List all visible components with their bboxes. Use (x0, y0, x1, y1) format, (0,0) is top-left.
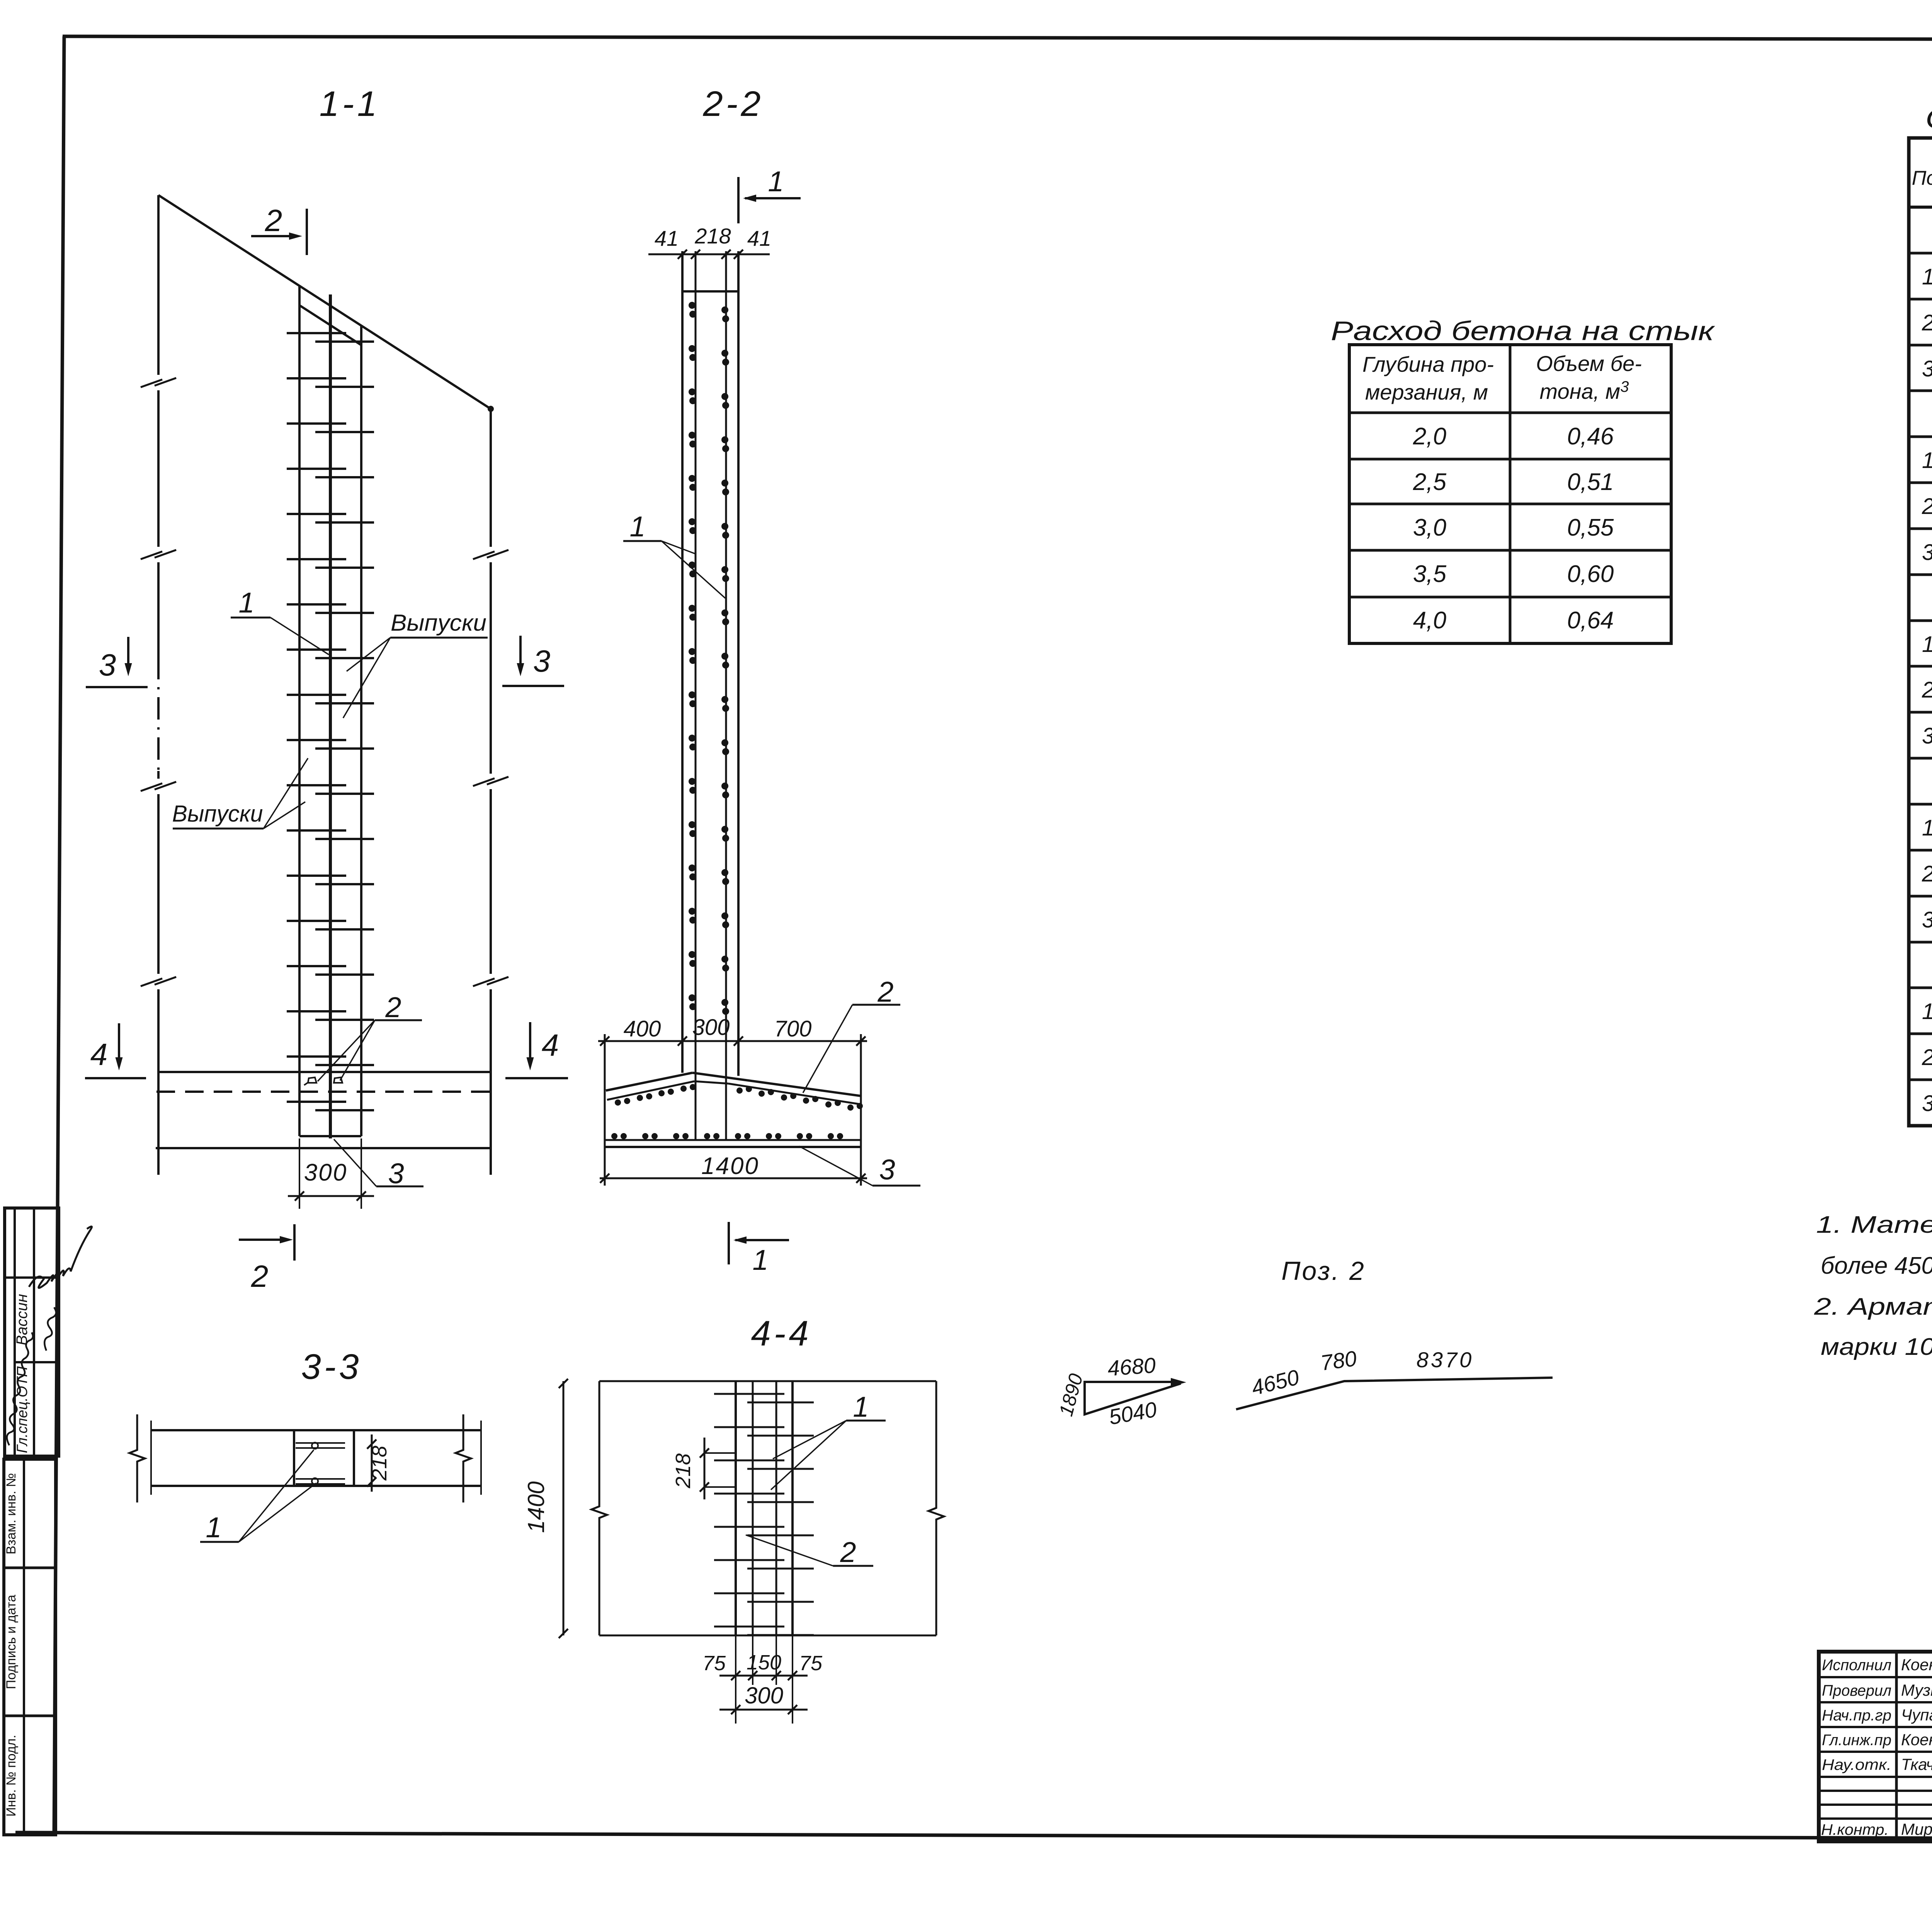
svg-text:Инв. № подл.: Инв. № подл. (4, 1735, 19, 1817)
svg-text:3: 3 (1922, 907, 1932, 932)
svg-text:марки 10 ГТ по ГОСТ 5781-82: марки 10 ГТ по ГОСТ 5781-82. (1821, 1334, 1932, 1360)
svg-text:3-3: 3-3 (301, 1347, 362, 1387)
svg-text:2,5: 2,5 (1413, 469, 1447, 495)
spec table header row (1909, 206, 1932, 209)
svg-text:0,64: 0,64 (1567, 607, 1614, 634)
svg-text:218: 218 (368, 1446, 391, 1481)
svg-text:3: 3 (99, 648, 116, 682)
stamp left grid (1895, 1652, 1898, 1841)
svg-text:Глубина про-: Глубина про- (1362, 352, 1494, 376)
svg-text:Нау.отк.: Нау.отк. (1822, 1756, 1891, 1773)
2-2 joint top line (682, 290, 738, 293)
4-4 right edge line with break (929, 1381, 944, 1635)
3-3 wall bottom edge (151, 1485, 481, 1487)
2-2 footing left edge (604, 1034, 606, 1186)
1-1 inner slope at joint top (299, 305, 361, 345)
svg-text:4-4: 4-4 (751, 1314, 812, 1353)
stamp outer box (1819, 1652, 1932, 1841)
svg-text:3: 3 (1922, 723, 1932, 749)
1-1 joint bar pos.1 (centre) (329, 294, 332, 1138)
svg-text:0,55: 0,55 (1567, 514, 1614, 541)
svg-text:1400: 1400 (523, 1481, 549, 1533)
1-1 ground line left (with breaks) (157, 195, 160, 375)
svg-text:2: 2 (877, 976, 893, 1008)
svg-text:2: 2 (1922, 677, 1932, 703)
3-3 dimension 218 (rotated) (371, 1434, 373, 1492)
2-2 wall outer right edge (737, 251, 740, 1076)
svg-text:2: 2 (1922, 1045, 1932, 1070)
1-1 pos.2 hook left (304, 1077, 316, 1085)
svg-text:Гл.спец.ОТП: Гл.спец.ОТП (14, 1366, 31, 1453)
1-1 right line top dot (488, 406, 494, 412)
svg-text:Н.контр.: Н.контр. (1821, 1821, 1889, 1838)
svg-text:Поз. 2: Поз. 2 (1281, 1256, 1366, 1286)
2-2 footing slope rebar dots (615, 1099, 621, 1106)
svg-text:3: 3 (1922, 356, 1932, 381)
svg-text:Подпись и дата: Подпись и дата (4, 1595, 19, 1690)
svg-text:300: 300 (745, 1683, 783, 1708)
svg-text:1: 1 (1922, 999, 1932, 1024)
1-1 footing dashed line (156, 1091, 491, 1093)
svg-text:2: 2 (385, 991, 401, 1023)
svg-text:3: 3 (388, 1157, 404, 1189)
sheet frame left border (54, 36, 64, 1835)
svg-text:780: 780 (1319, 1346, 1358, 1375)
2-2 footing bottom mat lines (605, 1139, 861, 1141)
4-4 dimension 1400 (rotated) (563, 1381, 565, 1635)
spec table group separator lines (1909, 252, 1932, 255)
2-2 footing mat rebar dots (611, 1133, 617, 1139)
4-4 joint right edge (791, 1381, 794, 1635)
svg-text:1400: 1400 (701, 1153, 759, 1179)
4-4 top edge line (599, 1380, 936, 1382)
svg-text:Ткаченко: Ткаченко (1901, 1755, 1932, 1773)
svg-text:мерзания, м: мерзания, м (1365, 380, 1488, 404)
svg-text:1: 1 (853, 1391, 869, 1423)
3-3 right end tick (480, 1421, 482, 1495)
svg-text:300: 300 (692, 1015, 730, 1040)
1-1 section marker 2 (bottom) (293, 1224, 296, 1261)
svg-text:Коен В.: Коен В. (1901, 1656, 1932, 1674)
sheet frame top border (63, 36, 1932, 40)
svg-text:Объем бе-: Объем бе- (1536, 351, 1642, 376)
3-3 right break line (456, 1414, 471, 1502)
svg-text:2,0: 2,0 (1413, 423, 1446, 450)
4-4 joint bar right (776, 1381, 777, 1635)
4-4 joint left edge (735, 1381, 737, 1635)
svg-text:1-1: 1-1 (320, 84, 380, 124)
svg-text:Спецификация арматуры на ст: Спецификация арматуры на стык (1925, 104, 1932, 134)
1-1 footing top line (158, 1071, 491, 1073)
3-3 upper bar pair (296, 1442, 345, 1444)
pos.2 bar profile polyline (1236, 1378, 1553, 1409)
3-3 left end tick (150, 1421, 152, 1495)
2-2 footing right edge (860, 1034, 862, 1186)
svg-text:1: 1 (768, 165, 784, 197)
1-1 joint left edge (298, 286, 301, 1136)
svg-text:Поз.: Поз. (1912, 167, 1932, 189)
pos.2 slope triangle (1085, 1381, 1181, 1414)
svg-text:1. Материал стыка бетон: 1. Материал стыка бетон В20 с расходом ц… (1816, 1211, 1932, 1238)
svg-text:тона, м3: тона, м3 (1540, 378, 1629, 403)
svg-text:75: 75 (799, 1652, 823, 1675)
svg-text:2: 2 (251, 1259, 269, 1293)
2-2 joint inner left edge (695, 251, 697, 1139)
4-4 dimension 218 (rotated) (704, 1438, 706, 1499)
svg-text:Гл.инж.пр: Гл.инж.пр (1822, 1732, 1891, 1749)
svg-text:2: 2 (265, 203, 282, 238)
svg-text:Выпуски: Выпуски (172, 801, 263, 827)
rotated cursive text in col1 of box A (7, 1332, 33, 1445)
svg-text:2: 2 (1922, 494, 1932, 519)
svg-text:2: 2 (840, 1536, 856, 1568)
svg-text:75: 75 (702, 1652, 726, 1675)
svg-text:300: 300 (304, 1159, 347, 1186)
svg-text:41: 41 (747, 226, 771, 250)
svg-text:Исполнил: Исполнил (1822, 1657, 1891, 1674)
svg-text:218: 218 (694, 224, 731, 248)
svg-text:700: 700 (774, 1016, 812, 1041)
svg-text:1: 1 (1922, 815, 1932, 841)
svg-text:2: 2 (1922, 861, 1932, 886)
1-1 joint bottom line (299, 1135, 361, 1137)
svg-text:1: 1 (1922, 632, 1932, 657)
svg-text:Миронова: Миронова (1901, 1820, 1932, 1838)
svg-text:Вассин: Вассин (14, 1294, 31, 1345)
svg-text:1: 1 (629, 510, 645, 543)
svg-text:2. Арматура периодического: 2. Арматура периодического профиля из ст… (1814, 1293, 1932, 1325)
svg-text:Проверил: Проверил (1822, 1682, 1891, 1699)
signature flourish above box A (29, 1227, 92, 1288)
svg-text:1: 1 (752, 1244, 768, 1276)
svg-text:Расход бетона на стык: Расход бетона на стык (1331, 316, 1716, 346)
svg-text:4,0: 4,0 (1413, 607, 1446, 634)
signature squiggle in row2 of box A (44, 1307, 56, 1351)
svg-text:Нач.пр.гр: Нач.пр.гр (1822, 1707, 1891, 1724)
svg-text:3,0: 3,0 (1413, 514, 1446, 541)
svg-text:3: 3 (879, 1154, 895, 1186)
left margin signature box A (5, 1208, 59, 1456)
svg-text:3: 3 (1922, 540, 1932, 565)
svg-text:1: 1 (238, 587, 254, 619)
4-4 rebar rungs and stubs (714, 1393, 784, 1395)
svg-text:5040: 5040 (1107, 1397, 1159, 1429)
2-2 rebar dots along joint (689, 302, 696, 309)
3-3 left break line (129, 1414, 145, 1502)
svg-text:3: 3 (1922, 1091, 1932, 1116)
svg-text:Коен Б.: Коен Б. (1901, 1730, 1932, 1749)
1-1 footing bottom line (156, 1147, 491, 1149)
svg-text:0,46: 0,46 (1567, 423, 1614, 450)
svg-text:218: 218 (672, 1453, 695, 1489)
svg-text:0,51: 0,51 (1567, 469, 1614, 495)
svg-text:Музюкин: Музюкин (1901, 1681, 1932, 1699)
3-3 wall top edge (151, 1429, 481, 1431)
4-4 joint bar left (752, 1381, 754, 1635)
3-3 joint left edge (293, 1430, 295, 1486)
1-1 joint right edge (360, 326, 362, 1136)
svg-text:1: 1 (206, 1511, 221, 1543)
2-2 wall outer left edge (681, 251, 684, 1073)
3-3 lower bar pair (296, 1478, 345, 1480)
svg-text:более 450 кг/м3, морозостойк: более 450 кг/м3, морозостойкостью не мен… (1821, 1251, 1932, 1279)
svg-text:41: 41 (655, 226, 679, 250)
4-4 left edge line with break (592, 1381, 607, 1635)
svg-text:400: 400 (624, 1016, 661, 1041)
sheet frame bottom border (15, 1833, 1932, 1840)
concrete table grid (1349, 345, 1671, 643)
2-2 section marker 1 top (737, 177, 740, 223)
svg-text:3,5: 3,5 (1413, 561, 1447, 587)
3-3 joint right edge (353, 1430, 355, 1486)
4-4 bottom edge line (599, 1635, 936, 1637)
svg-text:3: 3 (533, 644, 551, 678)
svg-text:4: 4 (542, 1028, 559, 1062)
svg-text:4680: 4680 (1107, 1353, 1156, 1381)
stamp margin table B (4, 1459, 56, 1835)
1-1 ground line right (with breaks) (490, 409, 492, 547)
spec table row lines (1909, 298, 1932, 301)
spec table outer border (1909, 138, 1932, 1126)
svg-text:1: 1 (1922, 264, 1932, 289)
svg-text:Взам. инв. №: Взам. инв. № (4, 1473, 19, 1555)
2-2 footing sloped top right (692, 1073, 861, 1096)
svg-text:Чупарнова: Чупарнова (1901, 1706, 1932, 1724)
2-2 footing sloped top left (606, 1073, 692, 1091)
svg-text:2: 2 (1922, 310, 1932, 335)
svg-text:1: 1 (1922, 448, 1932, 473)
svg-text:8370: 8370 (1417, 1348, 1474, 1372)
1-1 sloped top edge (158, 195, 491, 409)
2-2 section marker 1 bottom (728, 1222, 730, 1264)
2-2 joint inner right edge (725, 251, 727, 1139)
svg-text:4: 4 (90, 1037, 108, 1072)
svg-text:2-2: 2-2 (703, 84, 764, 124)
svg-text:Выпуски: Выпуски (391, 610, 486, 636)
svg-text:1890: 1890 (1055, 1371, 1087, 1418)
1-1 pos.2 hook right (334, 1077, 342, 1083)
svg-text:0,60: 0,60 (1567, 561, 1614, 587)
1-1 rebar rungs and stubs (287, 332, 346, 334)
